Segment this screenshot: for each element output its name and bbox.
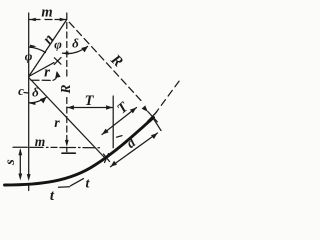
arrowhead T dim right [106,105,113,109]
arrowhead phi arc [30,45,37,48]
svg-text:r: r [54,116,60,131]
center cross below stroke [66,148,68,152]
arrowhead R line end [142,105,148,111]
t leader slash [59,179,84,188]
vertical dashed line upper [66,13,68,77]
c leader tick [24,92,29,95]
main vertical line [28,13,30,176]
arrowhead r hook [55,71,60,78]
arrowhead vertical dashed bottom [65,140,69,147]
r leader hook [53,73,57,81]
thick pitch arc [5,118,154,186]
svg-text:T: T [85,93,95,109]
svg-text:δ: δ [72,36,79,51]
arrowhead T dim left [67,105,74,109]
arrowhead delta T right [81,46,88,52]
arrowhead delta C left [29,102,36,105]
X tick at Q stroke 2 [148,112,158,122]
X tick at Q stroke 1 [147,112,157,122]
slanted dimension T line [102,108,137,135]
center cross bold dash below [62,152,75,154]
svg-text:m: m [41,5,52,21]
svg-text:φ: φ [25,49,33,64]
d right extension tick [154,120,161,131]
arrowhead m right [60,18,66,21]
radius R dashed line [69,22,142,102]
angle arc phi at C [29,47,46,53]
arrowhead main vertical bottom [27,174,31,181]
svg-text:m: m [35,134,46,149]
line to center X [29,63,54,77]
s dimension line [19,150,21,177]
d left extension cross tick [104,154,110,162]
dashed arc continuation [155,79,182,115]
s dimension top tick [13,146,27,148]
arrowhead s bottom [18,174,22,181]
arrowhead slanted T left [102,129,109,135]
r dashed leader [31,79,53,81]
arrowhead d left [111,161,118,167]
dimension m top line [29,19,66,21]
svg-text:r: r [44,65,50,81]
diagonal line from C [29,78,105,158]
svg-text:c: c [18,83,24,98]
svg-text:δ: δ [32,85,39,100]
line n [29,20,67,77]
arrowhead delta T left [62,52,69,55]
svg-text:s: s [3,159,18,166]
paper background [0,0,183,206]
arrowhead s top [18,148,22,155]
dimension T horizontal [67,107,112,109]
arrowhead delta C right [40,97,47,103]
svg-text:R: R [58,84,73,94]
X cross tick [54,58,61,65]
vertical dashed line lower [66,98,68,141]
vertical thin extension at P [112,96,114,148]
angle arc delta at C [29,97,46,102]
pitch line small dash right of P [117,136,123,138]
dimension d line [111,133,158,167]
arrowhead m left [29,18,36,21]
vertical line tick through arc bottom [28,184,30,191]
pitch dash-dot line m [30,146,100,148]
svg-text:φ: φ [54,37,62,52]
arrowhead slanted T right [130,108,137,114]
arrowhead d right [151,133,158,139]
angle arc delta at T [62,46,87,53]
